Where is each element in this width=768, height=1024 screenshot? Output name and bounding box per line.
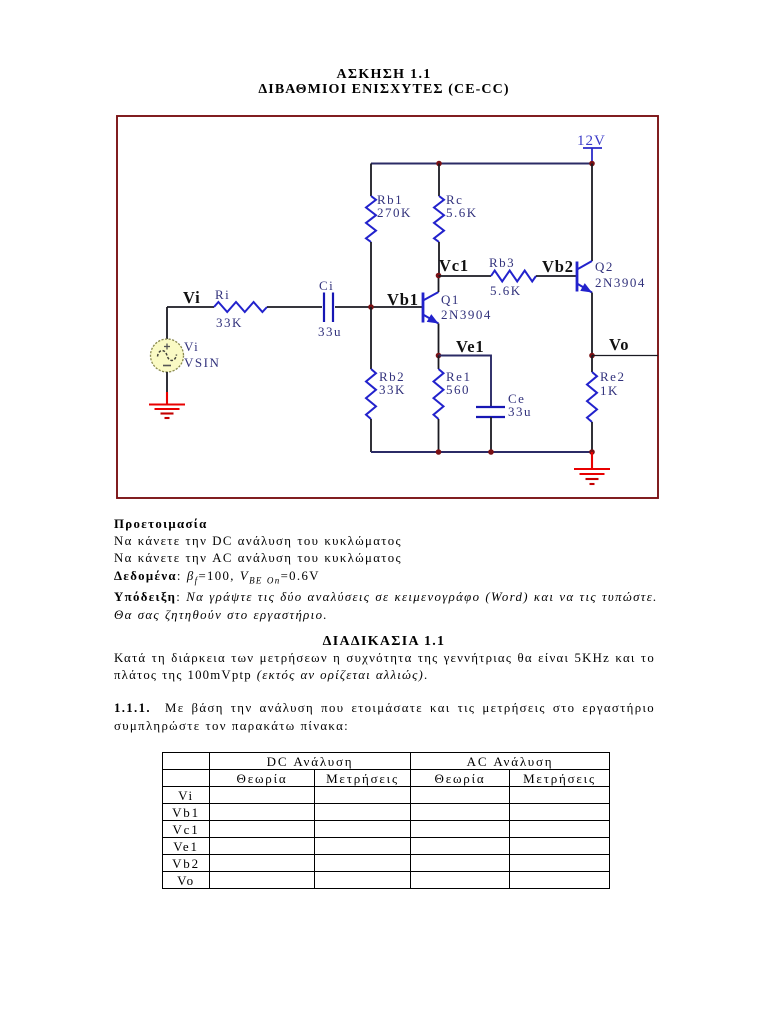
wire Ri to Ci (267, 306, 322, 308)
wire Rc bottom lead (438, 242, 440, 276)
wire input net (167, 306, 214, 308)
wire Re1 bottom lead (438, 419, 440, 452)
svg-text:Rb3: Rb3 (489, 255, 515, 270)
junction Ce/rail (488, 449, 494, 455)
wire Re2 bottom lead (591, 422, 593, 452)
svg-text:Vb2: Vb2 (542, 257, 574, 276)
paragraph 1.1.1 (114, 700, 655, 717)
svg-text:270K: 270K (377, 205, 412, 220)
wire Ce bottom lead (490, 417, 492, 452)
junction Re1/rail (436, 449, 442, 455)
svg-text:VSIN: VSIN (184, 355, 220, 370)
transistor Q2 2N3904 (577, 261, 594, 296)
wire Vo to border (592, 355, 658, 357)
wire Re1 top lead (438, 356, 440, 370)
svg-text:12V: 12V (577, 133, 606, 149)
wire Ci to Vb1 (335, 306, 423, 308)
svg-text:5.6K: 5.6K (490, 283, 522, 298)
wire source bottom lead (166, 372, 168, 392)
capacitor Ci (324, 293, 333, 323)
circuit schematic (116, 115, 659, 499)
resistor Re2 (587, 372, 597, 422)
ground right (0V) (574, 452, 610, 484)
svg-text:560: 560 (446, 382, 470, 397)
wire Rb1 top lead (370, 164, 372, 197)
wire Rb2 top lead (370, 307, 372, 369)
resistor Rc (434, 196, 444, 242)
wire Q1 emitter lead (438, 324, 440, 356)
wire top rail (371, 163, 592, 165)
title line 2 (0, 82, 768, 98)
svg-text:Q1: Q1 (441, 292, 460, 307)
heading ΔΙΑΔΙΚΑΣΙΑ 1.1 (0, 634, 768, 650)
svg-text:Vo: Vo (609, 335, 629, 354)
wire Rb3 to Q2 base (536, 275, 577, 277)
junction Re2/rail (589, 449, 595, 455)
svg-text:33K: 33K (379, 382, 406, 397)
transistor Q1 2N3904 (423, 292, 441, 327)
svg-text:Vi: Vi (184, 339, 199, 354)
wire Rb2 bottom lead (370, 419, 372, 452)
svg-text:Ci: Ci (319, 278, 334, 293)
junction rail/12V (589, 161, 595, 167)
svg-text:Vc1: Vc1 (439, 256, 469, 275)
svg-text:5.6K: 5.6K (446, 205, 478, 220)
wire Re2 top lead (591, 356, 593, 373)
svg-text:Ri: Ri (215, 287, 230, 302)
svg-text:33u: 33u (318, 324, 342, 339)
paragraph frequency (114, 650, 655, 667)
resistor Rb2 (366, 369, 376, 419)
wire bottom rail (371, 451, 592, 453)
power symbol 12V (583, 148, 602, 164)
measurements table (162, 752, 610, 889)
junction Vc1 (436, 273, 442, 279)
resistor Re1 (434, 369, 444, 419)
junction Vo (589, 353, 595, 359)
wire Q2 emitter lead (591, 293, 593, 356)
resistor Ri (214, 302, 267, 312)
resistor Rb1 (366, 196, 376, 242)
text block: preparation (114, 516, 659, 624)
svg-text:33K: 33K (216, 315, 243, 330)
junction rail/Rc (436, 161, 442, 167)
svg-text:2N3904: 2N3904 (595, 275, 646, 290)
title line 1 (0, 67, 768, 83)
svg-text:Vi: Vi (183, 288, 201, 307)
voltage source V1 VSIN (151, 339, 184, 372)
wire Rc top lead (438, 164, 440, 197)
capacitor Ce (476, 407, 505, 417)
ground left (0V) (149, 392, 185, 418)
svg-text:2N3904: 2N3904 (441, 307, 492, 322)
resistor Rb3 (491, 271, 536, 282)
wire 12V to Q2 collector (591, 164, 593, 262)
svg-text:33u: 33u (508, 404, 532, 419)
svg-text:Vb1: Vb1 (387, 290, 419, 309)
svg-text:1K: 1K (600, 383, 619, 398)
junction Ve1 (436, 353, 442, 359)
wire Rb1 bottom lead (370, 242, 372, 307)
wire Ve1 to Ce (439, 356, 492, 408)
wire source top lead (166, 307, 168, 339)
svg-text:Re2: Re2 (600, 369, 625, 384)
svg-text:Ve1: Ve1 (456, 337, 484, 356)
wire Q1 collector lead (438, 276, 440, 293)
schematic border frame (117, 116, 658, 498)
wire Vc1 to Rb3 (439, 275, 492, 277)
junction input/Rb1/Rb2 (368, 304, 374, 310)
svg-text:Q2: Q2 (595, 259, 614, 274)
